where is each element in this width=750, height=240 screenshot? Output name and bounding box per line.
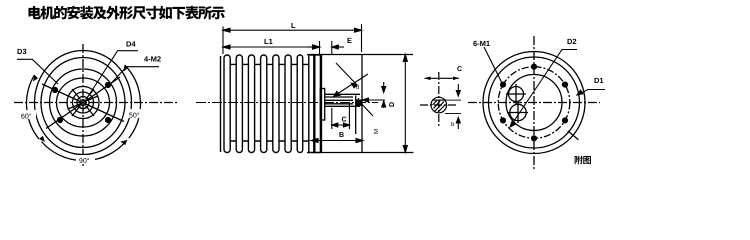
- fin core top line: [225, 63, 315, 65]
- bolt dot 90deg: [531, 64, 537, 70]
- left end plate: [220, 56, 222, 152]
- angle label 50: [127, 109, 144, 118]
- leader D4: [89, 51, 138, 95]
- ring 3: [50, 69, 117, 136]
- shaft step line 2: [325, 99, 353, 101]
- label L: [292, 23, 296, 28]
- horizontal centerline: [14, 102, 178, 104]
- fin 6: [285, 55, 291, 153]
- fin 5: [273, 55, 279, 153]
- label E: [348, 38, 352, 43]
- bolt hole dot lower-right: [105, 117, 111, 123]
- fin 4: [261, 55, 267, 153]
- terminal hole upper: [509, 87, 524, 102]
- shaft step line 3: [325, 103, 353, 105]
- fin core bottom line: [225, 140, 315, 142]
- flange face vertical: [361, 55, 363, 153]
- caption 附图: [575, 156, 591, 164]
- hub spoke SW: [72, 106, 81, 117]
- label D2: [568, 39, 577, 44]
- C dim arrows top: [425, 77, 460, 81]
- tiny label d: [356, 85, 359, 89]
- label D3: [18, 49, 27, 54]
- shaft hub blob: [356, 100, 363, 107]
- label 4-M2: [144, 56, 161, 61]
- flat extension line: [446, 99, 461, 101]
- hub spoke WSW: [68, 104, 80, 109]
- hub circle r6: [77, 97, 89, 109]
- leader 6-M1: [484, 47, 502, 83]
- L left extension line: [222, 27, 224, 55]
- leader D1: [577, 90, 605, 96]
- housing top edge: [307, 54, 413, 56]
- C extension left: [331, 108, 333, 129]
- dimension arc right 50deg: [125, 65, 141, 138]
- diagonal spoke line 35-215 deg: [46, 77, 120, 129]
- key height dim arrows: [456, 84, 460, 129]
- shaft step vertical: [355, 96, 357, 135]
- vertical centerline: [82, 44, 84, 166]
- inner circle: [506, 75, 562, 131]
- shaft step line 1: [325, 96, 353, 98]
- label D1: [595, 78, 604, 83]
- radial tick lower-right: [568, 131, 579, 140]
- right view h centerline: [468, 102, 600, 104]
- E tick left: [319, 41, 321, 54]
- hatch 4: [433, 101, 437, 105]
- key detail v centerline: [438, 72, 440, 126]
- dimension B line: [311, 139, 363, 143]
- leader to shaft 2: [334, 74, 368, 96]
- dimension L1 line: [223, 45, 320, 49]
- middle centerline: [196, 102, 378, 104]
- leader to shaft 3 lower: [358, 100, 373, 116]
- fin 7: [297, 55, 303, 153]
- bolt hole dot upper-left: [52, 87, 58, 93]
- angle label 60: [19, 110, 36, 119]
- arc arrowheads: [33, 65, 128, 145]
- dimension D vertical: [403, 55, 407, 153]
- bolt dot 270deg: [531, 135, 537, 141]
- outer circle: [483, 52, 585, 154]
- bearing boss: [320, 89, 324, 121]
- hub circle r2.8: [80, 100, 86, 106]
- hub circle r16: [67, 87, 99, 119]
- title text 电机的安装及外形尺寸如下表所示: [28, 6, 224, 20]
- shaft end vertical: [358, 98, 360, 107]
- fin 3: [248, 55, 254, 153]
- hub spoke NE: [86, 89, 95, 100]
- bolt dot 210deg: [500, 117, 506, 123]
- E tick right: [331, 41, 333, 54]
- fin 2: [236, 55, 242, 153]
- dimension C line: [332, 123, 350, 127]
- end plate 1: [309, 55, 314, 153]
- end plate 2: [315, 55, 321, 153]
- tiny mark under key dim: [451, 122, 454, 126]
- shaft bottom line: [325, 105, 360, 107]
- hatch 2: [435, 102, 445, 112]
- leader D3: [17, 59, 58, 84]
- leader D2: [510, 50, 577, 128]
- hatch 1: [434, 101, 441, 109]
- C extension right: [348, 104, 350, 129]
- terminal lower crosshair v: [517, 103, 519, 123]
- diagonal spoke line 155-335 deg: [42, 84, 124, 122]
- fin 1: [224, 55, 230, 153]
- hub spoke NW: [72, 89, 81, 100]
- label C middle: [342, 117, 347, 122]
- terminal upper crosshair h: [506, 93, 526, 95]
- housing bottom edge: [307, 152, 414, 154]
- label C key detail: [457, 66, 462, 71]
- hatch 3: [438, 105, 446, 113]
- hub spoke ENE: [86, 96, 98, 101]
- label D rotated: [389, 102, 394, 106]
- label B: [339, 132, 343, 137]
- second circle: [489, 57, 580, 148]
- bolt dot 150deg: [500, 82, 506, 88]
- bolt dot 330deg: [562, 117, 568, 123]
- right view v centerline: [533, 36, 535, 169]
- shaft section circle: [431, 97, 447, 113]
- leader to shaft 1: [336, 63, 357, 88]
- bottom extension line: [445, 113, 461, 115]
- bolt hole dot upper-right: [105, 82, 111, 88]
- hub spoke SE: [86, 106, 95, 117]
- bolt circle dashed: [498, 67, 570, 139]
- bolt dot 30deg: [562, 82, 568, 88]
- label 6-M1: [473, 41, 490, 46]
- bolt hole dot lower-left: [57, 117, 63, 123]
- shaft top line: [325, 93, 360, 95]
- E arrows: [307, 45, 344, 49]
- outer ring: [35, 51, 132, 155]
- key flat chord: [433, 99, 446, 101]
- dimension arc bottom 90deg: [41, 140, 127, 161]
- dimension arc left 60deg: [26, 75, 38, 139]
- L right extension line: [361, 24, 363, 52]
- hub circle r10.5: [73, 92, 94, 113]
- tiny rotated label near shaft dim: [374, 129, 378, 133]
- C dim line top: [425, 77, 460, 79]
- shaft diameter dim small: [363, 82, 386, 108]
- label L1: [265, 39, 273, 44]
- terminal upper crosshair v: [515, 84, 517, 104]
- leader 4-M2: [109, 67, 159, 86]
- ring 4: [57, 78, 110, 127]
- ring 2: [41, 58, 125, 148]
- terminal lower crosshair h: [508, 112, 528, 114]
- key detail h centerline: [420, 104, 457, 106]
- terminal hole lower: [510, 104, 526, 120]
- label D4: [127, 41, 136, 46]
- angle label 90: [76, 155, 95, 164]
- housing inner vertical: [321, 55, 323, 153]
- dimension L line: [223, 28, 362, 32]
